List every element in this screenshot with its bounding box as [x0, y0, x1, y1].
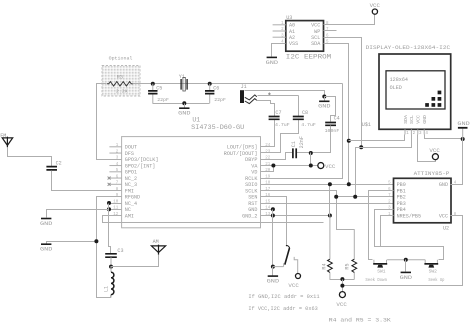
wire U1 RFGND — [97, 197, 122, 298]
wire U3 SCL to bus — [324, 38, 362, 148]
power VCC at VA — [318, 163, 324, 169]
U3 left stubs — [273, 25, 286, 37]
wire vcc branch — [310, 153, 312, 166]
svg-text:VCC: VCC — [370, 3, 380, 9]
svg-text:4.7uF: 4.7uF — [301, 122, 316, 128]
wire U2 GND pin — [451, 139, 463, 185]
wire display SDA — [349, 135, 405, 141]
resistor R5 — [345, 229, 357, 279]
ground left lower — [41, 243, 51, 245]
ground display (plate above) — [462, 129, 464, 139]
svg-text:VCC: VCC — [416, 115, 422, 124]
svg-text:Y1: Y1 — [179, 74, 185, 80]
svg-text:NC_4: NC_4 — [125, 201, 137, 207]
svg-text:NC: NC — [125, 207, 131, 213]
wire U1 VD tie to VA — [261, 166, 274, 172]
wire R4-R5 bottom rail — [330, 279, 355, 281]
wire U2 PB1 to SW1 — [369, 191, 394, 260]
svg-text:R5: R5 — [345, 263, 351, 269]
svg-text:NC_3: NC_3 — [125, 182, 137, 188]
svg-text:DOUT: DOUT — [125, 145, 137, 151]
svg-text:C3: C3 — [117, 248, 123, 254]
svg-text:GND: GND — [439, 182, 448, 188]
AM antenna — [151, 239, 165, 255]
capacitor C6 22pF — [205, 84, 226, 103]
svg-text:17: 17 — [265, 188, 271, 192]
svg-text:Seek Down: Seek Down — [365, 278, 387, 283]
svg-text:Optional: Optional — [109, 56, 133, 62]
svg-text:VCC: VCC — [439, 213, 448, 219]
wire J1 tip to C8 — [258, 95, 299, 97]
U1 pin stubs right (short unrouted) — [0, 0, 1, 1]
node switch gnd junction — [271, 265, 275, 269]
svg-text:ROUT/[DOUT]: ROUT/[DOUT] — [224, 151, 258, 157]
wire display VCC — [418, 135, 436, 162]
node pin13 junction — [271, 214, 275, 218]
svg-text:22pF: 22pF — [214, 97, 226, 103]
power VCC spdt — [296, 274, 301, 279]
U2 pin names — [397, 182, 448, 219]
wire gnd stem sw — [272, 267, 274, 276]
wire gnd stem2 — [324, 97, 326, 101]
capacitor C4 100nF — [325, 115, 340, 133]
wire U1 SDIO to U2 PB0 — [261, 184, 394, 186]
svg-text:VCC: VCC — [429, 148, 439, 154]
svg-text:GPO2/[INT]: GPO2/[INT] — [125, 163, 156, 169]
svg-text:AM: AM — [153, 239, 159, 245]
ground U3 — [267, 56, 277, 58]
svg-text:VSS: VSS — [289, 41, 298, 47]
node R4 top junction — [328, 214, 332, 218]
note I2C address — [248, 294, 319, 312]
svg-text:PB1: PB1 — [397, 188, 406, 194]
wire crystal line — [133, 83, 343, 85]
svg-text:GND: GND — [266, 60, 278, 66]
node C5 tap — [151, 82, 155, 86]
svg-text:VD: VD — [251, 170, 257, 176]
node VA-VD junction — [271, 164, 275, 168]
power VCC bottom — [339, 292, 345, 298]
svg-text:GND: GND — [40, 221, 52, 227]
wire U1 NC4 stub — [109, 203, 122, 205]
node VA vcc junction — [309, 164, 313, 168]
svg-text:GND: GND — [422, 115, 428, 124]
wire U1 DBYP to C1 — [261, 153, 293, 160]
inductor L1 — [104, 267, 114, 298]
power VCC display — [432, 154, 438, 160]
svg-text:128x64: 128x64 — [390, 77, 408, 83]
wire R3 to U1 GPO3/DCLK — [97, 84, 122, 160]
wire SCL line to U2 PB2 — [337, 196, 394, 198]
svg-text:FM: FM — [0, 133, 6, 139]
crystal Y1 — [179, 74, 187, 91]
svg-text:WP: WP — [314, 29, 320, 35]
svg-text:If GND,I2C addr = 0x11: If GND,I2C addr = 0x11 — [248, 294, 319, 300]
node display gnd junction — [461, 137, 465, 141]
svg-text:AMI: AMI — [125, 213, 134, 219]
FM antenna — [0, 133, 13, 147]
wire gnd to C4 — [325, 97, 336, 122]
display OLED 128x64 module — [366, 44, 451, 129]
node SDA R4 junction — [328, 182, 332, 186]
ground between switches — [401, 271, 411, 273]
svg-text:ATTINY85-P: ATTINY85-P — [414, 170, 450, 177]
svg-text:GND: GND — [457, 121, 469, 127]
svg-text:12: 12 — [113, 213, 119, 217]
wire U1 GND_2 line — [261, 215, 330, 217]
wire U2 PB4 to SW2 — [375, 210, 444, 260]
svg-text:GND: GND — [318, 104, 330, 110]
capacitor C5 22pF — [148, 84, 169, 103]
node pin11 junction — [107, 207, 111, 211]
svg-text:SW1: SW1 — [377, 269, 386, 275]
wire to VCC bottom — [342, 280, 344, 292]
svg-text:R3: R3 — [117, 75, 123, 81]
svg-text:22nF: 22nF — [299, 136, 305, 148]
node crystal gnd junction — [182, 101, 186, 105]
IC U3 I2C EEPROM — [286, 15, 332, 61]
svg-text:2.2K: 2.2K — [116, 88, 128, 94]
svg-text:100nF: 100nF — [325, 128, 340, 134]
svg-text:GND: GND — [267, 279, 279, 285]
wire U1 RST to U2 PB3 — [261, 203, 394, 205]
U1 pin stubs left — [109, 147, 121, 185]
wire J1 ring to C7 — [257, 101, 275, 117]
U1 NC tick marks pins 6,7 — [108, 177, 111, 186]
wire R4 to SDA line — [329, 185, 331, 216]
svg-text:C2: C2 — [56, 160, 62, 166]
wire NC pins down to C3 — [109, 204, 111, 254]
wire U1 LOUT to C7 — [261, 120, 275, 147]
wire crystal to U1 RCLK — [261, 84, 343, 179]
switch SW1 seek down — [373, 260, 406, 275]
svg-text:NRES/PB5: NRES/PB5 — [397, 213, 421, 219]
wire C8 top stem — [298, 96, 300, 117]
svg-text:C8: C8 — [302, 110, 308, 116]
node RFGND gnd junction — [94, 239, 98, 243]
node C6 tap — [208, 82, 212, 86]
svg-text:If VCC,I2C addr = 0x63: If VCC,I2C addr = 0x63 — [248, 306, 317, 312]
svg-text:PB2: PB2 — [397, 195, 406, 201]
svg-text:SI4735-D60-GU: SI4735-D60-GU — [191, 124, 244, 131]
wire C2 to U1 FMI — [52, 171, 122, 191]
svg-text:SEN: SEN — [248, 195, 257, 201]
ground crystal — [179, 107, 189, 109]
capacitor C1 22nF — [291, 136, 305, 158]
wire sw gnd stem — [405, 260, 407, 272]
node VCC rail junction — [340, 284, 344, 288]
wire U1 AMI — [103, 216, 324, 223]
svg-text:DBYP: DBYP — [245, 157, 257, 163]
capacitor C7 4.7uF — [269, 110, 290, 128]
svg-text:C7: C7 — [275, 110, 281, 116]
svg-text:U2: U2 — [443, 225, 449, 231]
svg-text:VA: VA — [251, 163, 258, 169]
svg-text:DFS: DFS — [125, 151, 134, 157]
display pin stubs — [405, 129, 424, 134]
svg-text:R4 and R5 = 3.3K: R4 and R5 = 3.3K — [329, 316, 392, 323]
U3 pin names — [289, 23, 321, 48]
switch SW2 seek up — [406, 260, 438, 275]
capacitor C2 — [46, 160, 61, 170]
svg-text:GND_2: GND_2 — [242, 213, 257, 219]
svg-text:RST: RST — [248, 201, 257, 207]
U2 pin numbers — [388, 182, 457, 217]
svg-text:VCC: VCC — [311, 23, 320, 29]
node C1-C4 vcc junction — [309, 151, 313, 155]
wire SCL to R5 — [337, 197, 355, 230]
svg-text:GND: GND — [400, 275, 412, 281]
svg-text:C5: C5 — [156, 86, 162, 92]
svg-text:SW2: SW2 — [429, 269, 438, 275]
wire FM antenna to C2 — [8, 148, 52, 167]
svg-text:22pF: 22pF — [157, 97, 169, 103]
svg-text:PB0: PB0 — [397, 182, 406, 188]
U3 pin numbers — [281, 22, 329, 45]
svg-text:VCC: VCC — [336, 302, 346, 308]
svg-text:FMI: FMI — [125, 188, 134, 194]
svg-text:R4: R4 — [322, 263, 328, 269]
svg-text:SDA: SDA — [403, 115, 409, 124]
wire U2 VCC to rail — [343, 216, 463, 286]
wire J1 sleeve to gnd — [245, 91, 325, 97]
svg-text:SDA: SDA — [311, 41, 321, 47]
svg-text:GND: GND — [248, 207, 257, 213]
svg-text:U$1: U$1 — [362, 122, 371, 128]
svg-text:PB3: PB3 — [397, 201, 406, 207]
power VCC U3 — [372, 9, 377, 14]
svg-text:GPO3/[DCLK]: GPO3/[DCLK] — [125, 157, 159, 163]
ground at switch — [268, 275, 278, 277]
node pin10 junction — [107, 201, 111, 205]
U1 pin numbers — [113, 144, 271, 217]
resistor R3 2.2K — [107, 75, 133, 95]
node pin14 junction — [271, 207, 275, 211]
svg-text:GND: GND — [40, 247, 52, 253]
svg-text:A2: A2 — [289, 35, 295, 41]
wire gnd stem — [184, 104, 186, 108]
wire U1 NC stub — [109, 209, 122, 211]
svg-text:VCC: VCC — [325, 164, 335, 170]
svg-text:LOUT/[DFS]: LOUT/[DFS] — [227, 145, 258, 151]
wire NC pins to ground — [47, 210, 109, 218]
resistor R4 — [322, 216, 333, 280]
node SDA display junction — [347, 139, 351, 143]
capacitor C3 — [105, 248, 123, 267]
node sleeve gnd junction — [322, 95, 326, 99]
node SCL display junction — [359, 145, 363, 149]
svg-text:OLED: OLED — [390, 85, 402, 91]
node SCL eeprom junction — [353, 195, 357, 199]
wire U1 ROUT to C8 — [261, 120, 299, 153]
svg-text:SCL: SCL — [409, 115, 415, 124]
wire U2 NRES join — [381, 216, 394, 247]
svg-text:A0: A0 — [289, 23, 295, 29]
connector J1 audio jack — [240, 84, 271, 103]
svg-text:L1: L1 — [104, 286, 110, 292]
svg-text:DISPLAY-OLED-128X64-I2C: DISPLAY-OLED-128X64-I2C — [366, 44, 451, 51]
wire display SCL — [356, 135, 412, 197]
wire U1 SEN to switch — [261, 197, 287, 247]
svg-text:GPO1: GPO1 — [125, 170, 137, 176]
capacitor C8 4.7uF — [293, 110, 316, 128]
svg-text:4.7uF: 4.7uF — [275, 122, 290, 128]
svg-text:NC_2: NC_2 — [125, 176, 137, 182]
wire U3 VSS to ground — [272, 44, 286, 57]
svg-text:A1: A1 — [289, 29, 295, 35]
svg-text:VCC: VCC — [288, 283, 298, 289]
svg-text:U1: U1 — [192, 117, 200, 124]
wire U3 SDA to bus — [324, 44, 349, 185]
svg-text:21: 21 — [265, 163, 271, 167]
svg-text:13: 13 — [265, 213, 271, 217]
wire U1 GND pin14 — [261, 209, 273, 211]
svg-text:GND: GND — [178, 111, 190, 117]
display pixel squares — [425, 91, 441, 107]
svg-text:SDIO: SDIO — [245, 182, 257, 188]
U1 pin names — [125, 145, 259, 220]
wire gnd chain down — [272, 210, 274, 267]
wire U1 SCLK to SCL node — [261, 191, 337, 197]
svg-text:SCL: SCL — [311, 35, 320, 41]
ground near C4 — [319, 100, 329, 102]
ground left upper — [41, 218, 51, 220]
svg-text:U3: U3 — [286, 15, 292, 21]
op IC U1 SI4735-D60-GU — [122, 117, 261, 228]
wire U3 VCC — [324, 15, 375, 25]
svg-text:I2C EEPROM: I2C EEPROM — [286, 53, 332, 60]
IC U2 ATTINY85-P — [394, 170, 452, 232]
switch SPDT I2C address select — [273, 246, 298, 274]
optional hatched box — [102, 66, 140, 97]
wire C4 bottom — [297, 126, 331, 153]
svg-text:RCLK: RCLK — [245, 176, 258, 182]
node switches gnd junction — [404, 258, 408, 262]
svg-text:RFGND: RFGND — [125, 195, 140, 201]
node SDA line junction — [347, 182, 351, 186]
wire display GND — [425, 135, 463, 139]
svg-text:PB4: PB4 — [397, 207, 406, 213]
node R bottom junction — [340, 277, 344, 281]
svg-text:SCLK: SCLK — [245, 188, 258, 194]
svg-text:C1: C1 — [291, 141, 297, 147]
wire U3 WP stub — [324, 30, 337, 32]
node SCL junction — [334, 195, 338, 199]
svg-text:C4: C4 — [334, 115, 340, 121]
node C3-L1-antenna junction — [109, 265, 113, 269]
wire U1 VA to VCC — [261, 165, 318, 167]
svg-text:Seek Up: Seek Up — [428, 278, 444, 283]
wire AM antenna to tank — [111, 255, 159, 267]
display pin labels — [403, 115, 428, 124]
svg-text:C6: C6 — [213, 86, 219, 92]
wire C5-C6 ground rail — [153, 103, 210, 105]
display pin numbers — [406, 132, 428, 136]
wire RFGND to ground — [47, 242, 97, 244]
svg-text:J1: J1 — [241, 84, 247, 90]
